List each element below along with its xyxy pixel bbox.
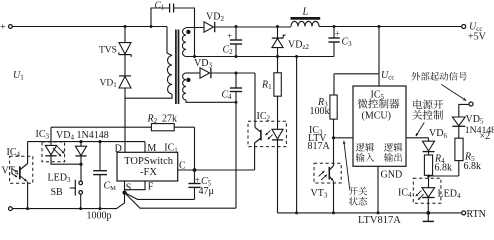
svg-text:+: + <box>195 175 200 185</box>
svg-text:F: F <box>148 182 154 193</box>
svg-text:C: C <box>179 160 186 171</box>
svg-text:D: D <box>115 143 122 154</box>
svg-text:+: + <box>0 22 6 33</box>
svg-text:S: S <box>126 182 132 193</box>
svg-text:TOPSwitch: TOPSwitch <box>124 156 174 167</box>
svg-text:-FX: -FX <box>140 167 157 178</box>
svg-text:+: + <box>335 28 340 38</box>
svg-text:+: + <box>227 31 232 41</box>
svg-text:SB: SB <box>51 187 64 198</box>
svg-text:L: L <box>302 7 309 18</box>
svg-text:RTN: RTN <box>467 209 486 220</box>
svg-text:(MCU): (MCU) <box>362 111 391 122</box>
svg-text:817A: 817A <box>308 141 331 152</box>
svg-text:×2: ×2 <box>480 131 491 142</box>
svg-text:47μ: 47μ <box>199 186 214 197</box>
svg-text:LTV817A: LTV817A <box>358 215 401 225</box>
svg-text:TVS: TVS <box>99 46 117 56</box>
svg-text:1000p: 1000p <box>87 211 112 222</box>
svg-text:27k: 27k <box>162 114 177 125</box>
svg-text:M: M <box>147 143 156 154</box>
svg-text:6.8k: 6.8k <box>464 161 482 172</box>
svg-text:6.8k: 6.8k <box>435 162 453 173</box>
svg-text:+5V: +5V <box>468 32 487 43</box>
svg-text:GND: GND <box>381 170 403 181</box>
svg-text:100k: 100k <box>310 106 330 117</box>
svg-text:1N4148: 1N4148 <box>77 130 109 141</box>
